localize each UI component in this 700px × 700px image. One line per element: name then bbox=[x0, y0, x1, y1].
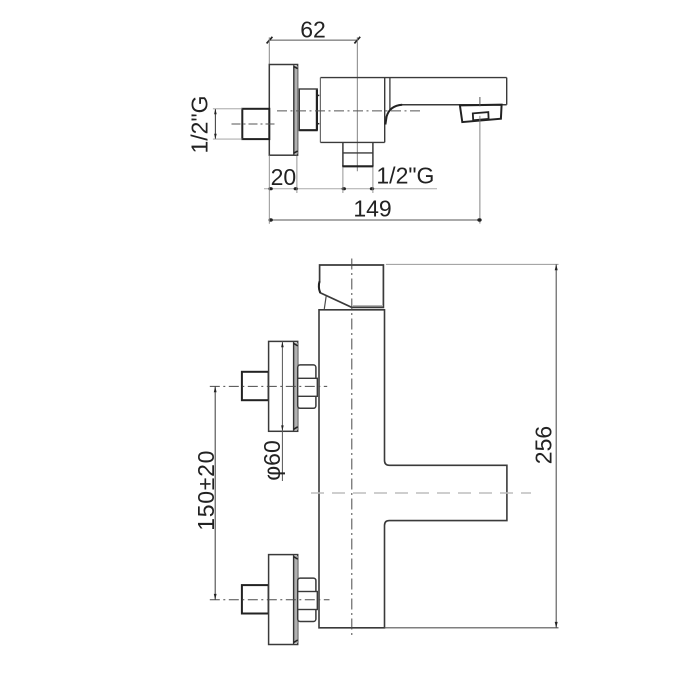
extension line 20 right bbox=[296, 156, 298, 193]
svg-text:149: 149 bbox=[353, 195, 391, 221]
handle lever bbox=[319, 265, 383, 307]
svg-text:62: 62 bbox=[300, 16, 326, 42]
extension line left of 62/20/149 bbox=[268, 37, 270, 64]
aerator nozzle bbox=[473, 112, 489, 120]
dimension 1/2G left arrow bottom bbox=[214, 134, 217, 139]
dimension 1/2G left line bbox=[214, 109, 216, 139]
dimension 256 line bbox=[555, 264, 557, 627]
dimension 1/2G outlet arrows bbox=[342, 187, 346, 190]
wall flange (top view) bbox=[269, 65, 297, 156]
spout (top view) bbox=[385, 78, 506, 125]
main axis centerline (top view) bbox=[277, 110, 420, 112]
upper wall flange (front view) bbox=[269, 341, 298, 431]
dimension 149 arrows bbox=[269, 218, 273, 221]
phi60 arrows bbox=[281, 342, 284, 348]
body (top view) bbox=[320, 78, 506, 143]
upper nut (front view) bbox=[298, 365, 318, 408]
dimension 1/2G left arrow top bbox=[214, 109, 217, 114]
phi60 dimension line bbox=[281, 341, 283, 481]
svg-text:φ60: φ60 bbox=[259, 440, 285, 481]
upper inlet pipe (front view) bbox=[242, 372, 269, 400]
inlet pipe (top view) bbox=[242, 109, 269, 139]
dimension 150+-20 arrows bbox=[214, 386, 217, 392]
extension line 149 left bbox=[268, 156, 270, 224]
aerator extension line (149 right) bbox=[479, 116, 481, 224]
lower wall flange (front view) bbox=[269, 555, 298, 645]
extension/center line of outlet (62 right) bbox=[356, 37, 358, 171]
svg-text:1/2"G: 1/2"G bbox=[376, 163, 434, 189]
dimension 62 tick right bbox=[354, 37, 360, 44]
svg-text:150±20: 150±20 bbox=[193, 450, 219, 531]
nut (top view) bbox=[299, 89, 319, 131]
dimension 20 arrows bbox=[268, 187, 272, 190]
256 extension bottom bbox=[385, 627, 559, 629]
extension lines outlet bbox=[343, 168, 373, 194]
outlet (top view) bbox=[342, 142, 373, 166]
dimension 62 tick left bbox=[267, 37, 273, 44]
body vertical centerline bbox=[351, 259, 353, 638]
extension lines 1/2G left bbox=[213, 109, 242, 139]
pipe centerline (top view) bbox=[232, 123, 278, 125]
handle bottom shade bbox=[353, 305, 383, 307]
lower nut (front view) bbox=[298, 578, 318, 621]
dimension 20 / outlet leader line bbox=[264, 188, 437, 190]
svg-text:20: 20 bbox=[271, 164, 297, 190]
dimension 256 arrows bbox=[555, 264, 558, 270]
256 extension top bbox=[386, 263, 559, 265]
dimension 62 line bbox=[269, 39, 357, 41]
upper connection centerline bbox=[210, 385, 327, 387]
aerator centerline tick bbox=[479, 97, 481, 106]
dimension 149 line bbox=[269, 219, 480, 221]
lower connection centerline bbox=[210, 599, 330, 601]
lower inlet pipe (front view) bbox=[242, 585, 269, 613]
svg-text:256: 256 bbox=[531, 426, 557, 464]
handle tip arc emphasis bbox=[319, 281, 320, 293]
body with spout (front view) bbox=[319, 310, 507, 628]
spout centerline (dashed light) bbox=[311, 492, 531, 494]
handle inner edge bbox=[324, 296, 326, 309]
dimension 150+-20 line bbox=[214, 386, 216, 599]
svg-text:1/2"G: 1/2"G bbox=[187, 95, 213, 153]
aerator (top view) bbox=[460, 105, 502, 122]
